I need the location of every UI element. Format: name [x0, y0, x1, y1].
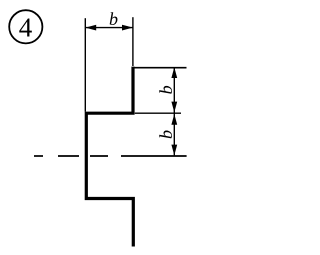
- svg-text:b: b: [156, 130, 176, 139]
- arrowhead down of second vertical b: [171, 145, 177, 156]
- arrowhead right of top dimension: [122, 25, 133, 31]
- vertical dimension line right: [173, 67, 175, 155]
- arrowhead left of top dimension: [85, 25, 96, 31]
- svg-text:4: 4: [19, 12, 33, 42]
- profile: Z-section thick outline: [86, 67, 133, 247]
- extension line at top step (y=67.7): [133, 67, 187, 69]
- centerline dash 2: [58, 155, 79, 157]
- extension line at middle step (y=113.2): [135, 112, 181, 114]
- svg-text:b: b: [156, 85, 176, 94]
- centerline dash 3: [90, 155, 108, 157]
- arrowhead down of first vertical b: [171, 102, 177, 113]
- extension line left (x=85.3): [84, 18, 86, 111]
- arrowhead up of second vertical b: [171, 114, 177, 125]
- centerline dash 1: [34, 155, 43, 157]
- centerline dash 4 (long): [121, 155, 187, 157]
- extension line right (x=132.9): [132, 17, 134, 66]
- svg-text:b: b: [109, 9, 118, 29]
- dimension line top b: [85, 27, 133, 29]
- figure number circle: [9, 10, 42, 43]
- arrowhead up of first vertical b: [171, 67, 177, 78]
